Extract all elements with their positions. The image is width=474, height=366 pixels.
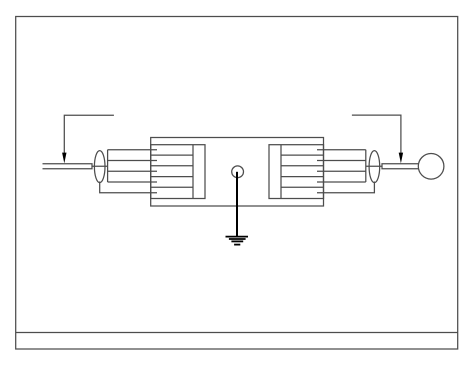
contact row lines left	[151, 155, 193, 187]
wire: right branch 4	[317, 181, 366, 183]
wire: right branch 1	[317, 149, 366, 151]
wire: ground drop	[236, 172, 238, 237]
wire: right lead terminal	[382, 164, 419, 169]
wire: left branch 1	[108, 149, 157, 151]
leader arrow left	[62, 115, 114, 163]
wire: left branch 5 via bushing tail	[100, 182, 157, 193]
feed-through ground terminal	[232, 166, 244, 178]
contact row lines right	[281, 155, 324, 187]
wire: left branch 3	[108, 170, 157, 172]
wire: left branch 4	[108, 181, 157, 183]
leader arrow right	[352, 115, 403, 163]
connector insert left face divider	[192, 145, 194, 199]
cable bushing left (ellipse)	[94, 151, 105, 183]
wire: right fan-out bus bar	[365, 150, 367, 182]
wire: right branch 3	[317, 170, 366, 172]
connector insert right face divider	[280, 145, 282, 199]
ground	[226, 237, 249, 245]
cable bushing right (ellipse)	[369, 151, 380, 183]
wire: bushing to right lead	[366, 165, 382, 167]
connector insert left shell	[151, 145, 205, 199]
wire: left branch 2	[108, 160, 157, 162]
connector insert right shell	[269, 145, 324, 199]
connector housing body	[151, 138, 324, 207]
wire: left fan-out bus bar	[107, 150, 109, 182]
terminal ball right	[418, 154, 444, 180]
wire: left lead terminal	[43, 164, 93, 169]
wire: left lead to bushing	[92, 165, 108, 167]
wire: right branch 2	[317, 160, 366, 162]
wire: right branch 5 via bushing tail	[317, 182, 374, 193]
